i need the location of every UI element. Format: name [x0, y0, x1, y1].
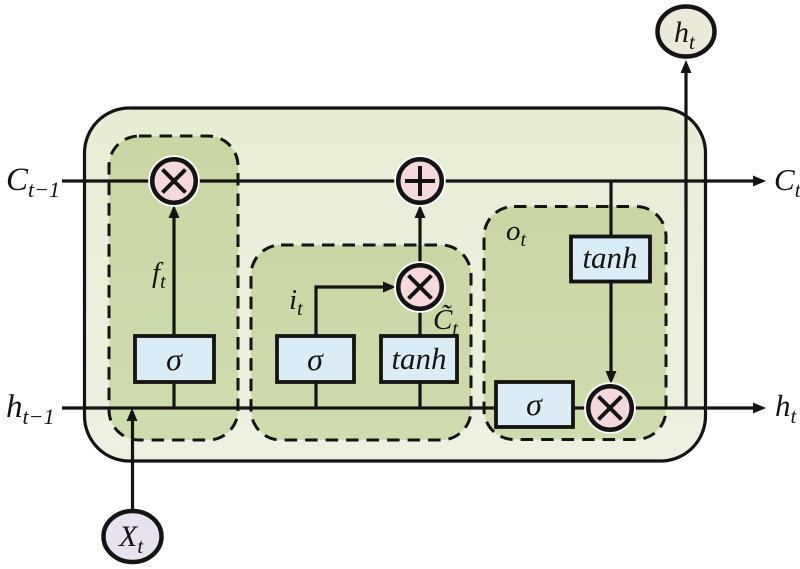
wire X_t input arrow [127, 408, 138, 509]
input-gate dashed group [251, 245, 471, 440]
svg-text:Ct−1: Ct−1 [6, 162, 60, 202]
sigma box 1 (forget gate) [135, 336, 214, 382]
svg-text:Ct: Ct [774, 162, 800, 202]
tanh box 2 (candidate) [381, 336, 457, 382]
tanh box 3 (output path) [571, 237, 650, 282]
wire sigma1 to h line [172, 382, 175, 408]
sigma box 3 (output gate) [496, 382, 573, 427]
wire h_t branch up to output circle [681, 60, 692, 408]
multiply gate 2 (input) [394, 261, 446, 313]
forget-gate dashed group [109, 136, 238, 440]
input node X_t [104, 511, 162, 562]
wire f_t arrow [169, 205, 180, 382]
svg-text:ht−1: ht−1 [6, 389, 54, 429]
wire i_t arrow [316, 282, 396, 383]
svg-text:tanh: tanh [391, 341, 446, 376]
output-gate dashed group [484, 207, 666, 440]
multiply gate 1 (forget) [148, 155, 200, 207]
svg-text:σ: σ [526, 386, 543, 422]
output node h_t [658, 7, 715, 57]
wire tanh2 to h line [418, 382, 421, 408]
sigma box 2 (input gate) [277, 336, 354, 382]
wire C line to tanh3 and down to multiply3 arrow [606, 181, 617, 384]
wire multiply2 to plus arrow [415, 205, 426, 263]
svg-text:ht: ht [775, 388, 798, 428]
LSTM cell body [85, 108, 706, 461]
wire tanh2 to multiply2 [418, 311, 421, 336]
wire sigma2 to h line [314, 382, 317, 408]
hidden-state line h [62, 403, 766, 414]
svg-text:σ: σ [307, 341, 324, 377]
plus gate (cell update) [394, 155, 446, 207]
svg-text:tanh: tanh [582, 240, 637, 275]
multiply gate 3 (output) [584, 382, 636, 434]
svg-text:σ: σ [166, 341, 183, 377]
cell-state line C [62, 176, 766, 187]
